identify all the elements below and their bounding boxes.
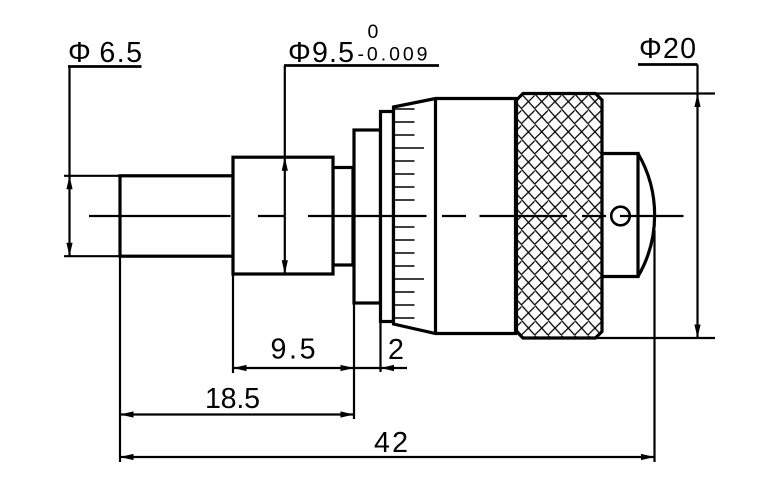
dimension 42 xyxy=(120,230,655,462)
svg-text:2: 2 xyxy=(388,334,404,366)
svg-text:18.5: 18.5 xyxy=(205,383,260,415)
svg-text:Φ20: Φ20 xyxy=(639,33,696,65)
svg-text:-0.009: -0.009 xyxy=(358,44,428,66)
svg-text:Φ 6.5: Φ 6.5 xyxy=(68,37,142,69)
centerline xyxy=(89,215,684,217)
knurled ring xyxy=(517,94,603,339)
hole xyxy=(611,207,630,226)
svg-text:9.5: 9.5 xyxy=(271,334,316,366)
stem block xyxy=(233,157,333,274)
dimension Phi6.5 xyxy=(64,37,142,256)
dimension Phi20 xyxy=(596,33,715,338)
thimble graduations xyxy=(395,109,425,318)
svg-text:0: 0 xyxy=(368,21,379,43)
dimension 2 xyxy=(354,323,407,372)
end cap xyxy=(602,154,655,277)
spindle xyxy=(120,176,233,256)
thimble xyxy=(394,99,516,334)
neck xyxy=(333,168,353,266)
sleeve edge xyxy=(381,112,394,322)
dimension 18.5 xyxy=(120,256,354,462)
dimension 9.5 xyxy=(233,274,354,419)
step ring xyxy=(354,130,381,303)
dimension Phi9.5 with tolerance xyxy=(282,21,439,274)
